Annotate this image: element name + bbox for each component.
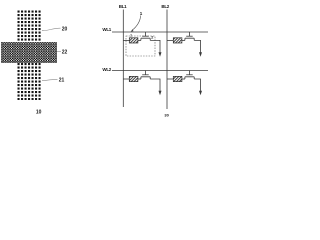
cell 1,2 : branch wire from BL2 [167, 39, 173, 41]
cell 1,1 : wire element to transistor [138, 39, 141, 41]
leader line to label 21 [42, 79, 58, 80]
cell 2,2 : transistor gate bar [186, 74, 193, 76]
bit line BL1 [122, 10, 124, 108]
svg-text:10: 10 [36, 109, 42, 115]
cell 2,1 : wire element to transistor [138, 78, 141, 80]
cell 1,1 : transistor gate bar [142, 35, 149, 37]
word line WL2 [112, 70, 208, 72]
cell 1,1 : source-line arrowhead [159, 52, 162, 57]
cell 1,2 : gate stub to WL1 [188, 32, 190, 36]
cell 2,2 : gate stub to WL2 [188, 71, 190, 75]
cell 1,2 : transistor gate bar [186, 35, 193, 37]
cell 2,1 : source-line arrowhead [159, 91, 162, 96]
cell 2,1 : gate stub to WL2 [144, 71, 146, 75]
cell 1,1 : transistor channel and legs [141, 38, 150, 40]
cell 1,2 : source-line arrowhead [199, 52, 202, 57]
horizontal electrode strip 21 (checkerboard pattern) [1, 42, 57, 63]
vertical electrode strip 20 (dotted pattern) [17, 10, 41, 100]
svg-text:WL1: WL1 [102, 27, 111, 32]
cell 2,2 : wire element to transistor [182, 78, 185, 80]
cell 1,2 : storage element (hatched box) [173, 38, 182, 43]
cell 2,1 : storage element (hatched box) [129, 76, 138, 81]
svg-text:22: 22 [62, 49, 68, 55]
bit line BL2 [166, 10, 168, 110]
cell 2,2 : source wire [194, 79, 200, 91]
svg-text:WL2: WL2 [102, 67, 111, 72]
svg-text:21: 21 [59, 77, 65, 83]
cell 1,1 : gate stub to WL1 [144, 32, 146, 36]
cell 2,2 : branch wire from BL2 [167, 78, 173, 80]
svg-text:BL1: BL1 [119, 4, 127, 9]
cell 1,1 : storage element (hatched box) [129, 38, 138, 43]
cell 2,1 : source wire [150, 79, 160, 91]
cell 2,2 : transistor channel and legs [185, 77, 194, 79]
svg-text:BL2: BL2 [161, 4, 169, 9]
arrowhead of cell-1 leader [131, 29, 134, 31]
leader line to label 22 [57, 50, 62, 52]
svg-text:20: 20 [62, 26, 68, 32]
cell 2,1 : branch wire from BL1 [123, 78, 129, 80]
cell 1,2 : source wire [194, 40, 200, 52]
leader line to label 20 [42, 28, 61, 31]
word line WL1 [112, 31, 208, 33]
cell 1,2 : transistor channel and legs [185, 38, 194, 40]
cell 2,1 : transistor channel and legs [141, 77, 150, 79]
svg-text:3: 3 [130, 33, 132, 37]
cell 1,1 : branch wire from BL1 [123, 39, 129, 41]
cell 2,1 : transistor gate bar [142, 74, 149, 76]
cell 1,2 : wire element to transistor [182, 39, 185, 41]
cell 2,2 : source-line arrowhead [199, 91, 202, 96]
svg-text:30: 30 [164, 113, 169, 118]
curved leader to cell 1 [132, 16, 140, 31]
cell 2,2 : storage element (hatched box) [173, 76, 182, 81]
dashed memory-cell outline (cell 1) [126, 36, 155, 56]
cell 1,1 : source wire [150, 40, 160, 52]
